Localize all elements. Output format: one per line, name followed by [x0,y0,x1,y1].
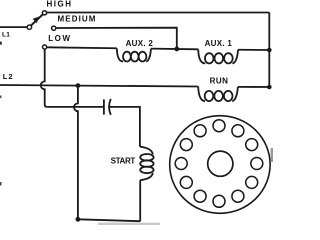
motor hub circle [208,151,233,176]
inductor AUX1 [198,49,238,63]
wire LOW down with hop over L2 [41,49,47,107]
wire L2 to RUN [0,85,198,87]
wire bottom return [78,219,140,221]
wire LOW to AUX2 [47,46,117,49]
wire start bottom side [139,180,141,221]
right bus [268,13,270,88]
wire from L2 junction down with hop over capacitor lead [74,88,78,220]
svg-text:RUN: RUN [210,76,229,85]
wire RUN to bus [238,86,269,88]
contact MEDIUM [52,26,56,30]
motor terminal circles [175,120,263,208]
wire MEDIUM to junction J1 [56,28,177,49]
wire HIGH to right bus [47,12,269,14]
junction bus-AUX1 [267,48,272,53]
inductor RUN [198,87,238,102]
junction bus-RUN [267,85,272,90]
wire capacitor right lead to start top [109,107,140,147]
wire L1 lead [0,26,27,28]
wire AUX2 to AUX1 [151,48,198,51]
svg-text:LOW: LOW [48,34,71,43]
capacitor C plates [104,99,111,115]
svg-text:MEDIUM: MEDIUM [58,14,97,23]
wire capacitor left lead [47,106,103,108]
motor outer circle [170,116,270,214]
svg-text:HIGH: HIGH [47,0,73,9]
wire AUX1 to bus [238,49,269,51]
svg-text:L1: L1 [2,32,10,39]
junction L2 start-branch [76,83,81,88]
switch pivot contact [27,25,31,29]
svg-text:AUX. 1: AUX. 1 [205,39,233,48]
inductor AUX2 [117,48,151,61]
switch blade arrowhead [33,16,40,23]
contact HIGH [42,11,46,15]
svg-text:AUX. 2: AUX. 2 [126,39,154,48]
inductor START (vertical) [140,147,154,181]
scan artifacts [0,42,273,225]
svg-text:L2: L2 [3,72,14,81]
svg-text:START: START [111,157,136,166]
switch blade arm [31,14,43,25]
junction J1 [174,47,179,52]
junction bottom return [76,217,81,222]
contact LOW [43,45,47,49]
